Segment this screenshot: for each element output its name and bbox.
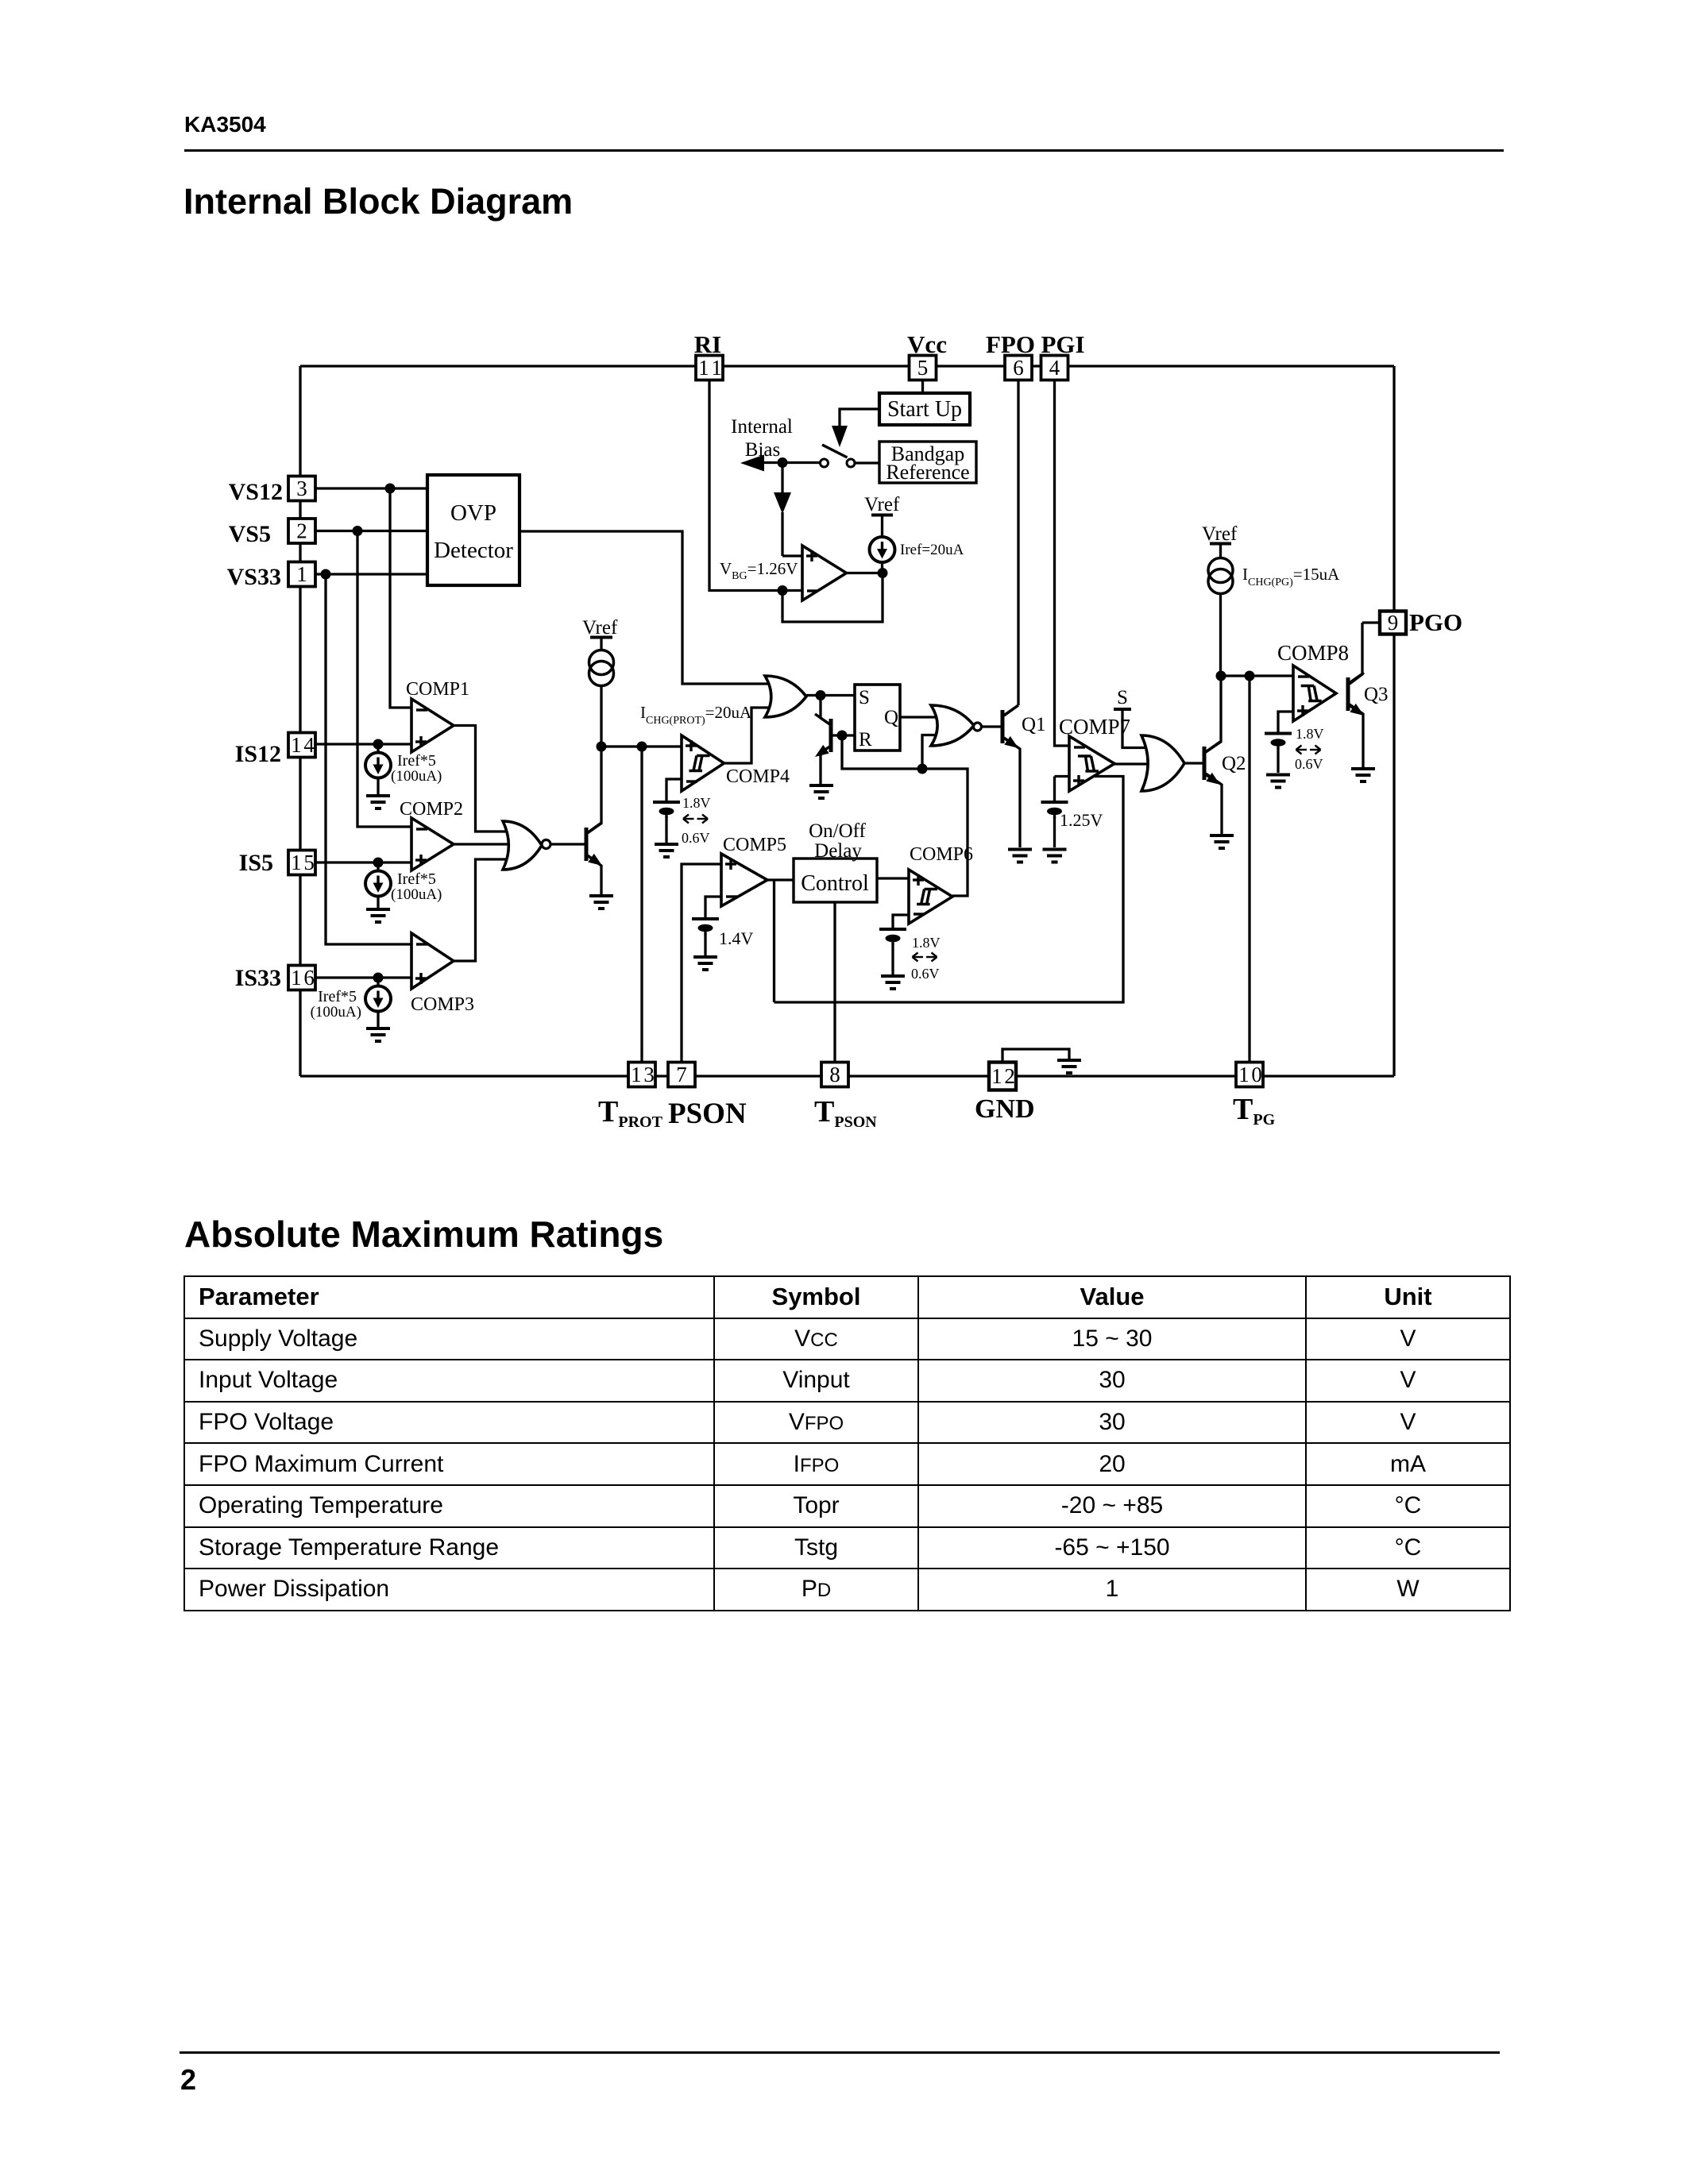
wire R node down and right to COMP6 output rail xyxy=(842,735,968,896)
pin 11 RI xyxy=(696,356,723,380)
op-amp bandgap buffer xyxy=(802,546,847,600)
current source Iref*5 IS33 xyxy=(377,978,379,986)
svg-text:(100uA): (100uA) xyxy=(391,886,442,903)
op-amp COMP7 xyxy=(1069,736,1114,791)
wire COMP7 output to OR-B input 2 xyxy=(1114,762,1149,765)
svg-text:Vcc: Vcc xyxy=(907,330,947,358)
table absolute maximum ratings xyxy=(183,1275,1511,1611)
svg-text:GND: GND xyxy=(975,1094,1035,1124)
svg-text:Iref*5: Iref*5 xyxy=(318,988,357,1005)
node VS33 junction xyxy=(321,569,331,580)
svg-text:VS12: VS12 xyxy=(229,479,283,505)
svg-text:R: R xyxy=(859,729,872,751)
svg-text:PGO: PGO xyxy=(1409,608,1462,636)
transistor latch reset xyxy=(815,714,831,757)
wire COMP7 plus input xyxy=(1055,775,1072,778)
wire latch R input xyxy=(832,734,855,736)
node Vref output junction xyxy=(878,568,888,578)
arrow switch actuator xyxy=(832,426,848,447)
svg-text:COMP8: COMP8 xyxy=(1277,641,1349,665)
battery COMP4 threshold 1.8V/0.6V xyxy=(653,802,680,818)
svg-text:VS5: VS5 xyxy=(229,521,271,547)
svg-text:0.6V: 0.6V xyxy=(1295,756,1323,772)
svg-text:COMP1: COMP1 xyxy=(406,679,469,700)
latch SR xyxy=(855,685,900,751)
gate NOR latch output xyxy=(931,705,974,746)
wire pin4 PGI down to COMP7 minus xyxy=(1055,380,1072,746)
svg-text:COMP2: COMP2 xyxy=(400,799,463,820)
wire COMP5 output to control block xyxy=(767,878,795,881)
wire VS12 pin3 to OVP detector xyxy=(315,487,429,489)
op-amp COMP1 xyxy=(411,699,454,752)
current source ICHG(PG)=15uA xyxy=(1208,558,1233,594)
wire NOR-B output to Q1 base xyxy=(982,725,1003,727)
node internal bias junction xyxy=(778,457,788,468)
wire Q1 collector xyxy=(1004,705,1018,716)
svg-text:Iref*5: Iref*5 xyxy=(397,752,436,770)
svg-text:1.25V: 1.25V xyxy=(1060,810,1103,830)
svg-text:ICHG(PROT)=20uA: ICHG(PROT)=20uA xyxy=(640,703,752,727)
wire pin11 RI down to bandgap opamp minus xyxy=(709,380,802,591)
battery COMP6 threshold 1.8V/0.6V xyxy=(879,929,906,945)
wire latch transistor emitter to ground xyxy=(821,746,831,784)
wire S terminal to OR-B input 1 xyxy=(1122,709,1147,748)
wire control block to COMP6 plus xyxy=(877,877,910,879)
svg-text:COMP6: COMP6 xyxy=(910,844,973,865)
svg-text:0.6V: 0.6V xyxy=(911,966,940,982)
node protection timing junction xyxy=(597,742,607,752)
op-amp COMP8 xyxy=(1293,666,1336,721)
wire Q2 collector to power-good node xyxy=(1206,676,1221,752)
wire Vref to protection charge source xyxy=(600,638,602,651)
svg-text:Detector: Detector xyxy=(434,538,513,563)
wire VS5 pin2 to OVP detector xyxy=(315,530,429,532)
ground COMP4 threshold battery xyxy=(655,844,678,857)
wire Iref source to Vref node xyxy=(881,562,883,573)
ground Q2 emitter xyxy=(1210,835,1234,848)
pin 5 Vcc xyxy=(910,356,937,380)
pin 4 PGI xyxy=(1041,356,1068,380)
wire protection transistor collector xyxy=(587,747,601,833)
svg-text:1.8V: 1.8V xyxy=(912,935,941,951)
block Bandgap Reference xyxy=(879,442,976,483)
svg-text:1 5: 1 5 xyxy=(291,851,314,874)
svg-text:0.6V: 0.6V xyxy=(682,830,710,846)
svg-text:COMP4: COMP4 xyxy=(726,766,790,787)
svg-text:RI: RI xyxy=(694,330,721,358)
svg-text:COMP3: COMP3 xyxy=(411,994,474,1015)
svg-text:Bias: Bias xyxy=(745,439,780,461)
wire TPG pin10 riser xyxy=(1248,676,1250,1063)
svg-text:OVP: OVP xyxy=(450,500,496,526)
heading Absolute Maximum Ratings xyxy=(184,1213,663,1256)
svg-text:1 4: 1 4 xyxy=(291,733,315,757)
svg-text:TPG: TPG xyxy=(1233,1093,1276,1129)
battery 1.4V xyxy=(692,919,719,935)
svg-text:1.4V: 1.4V xyxy=(719,928,754,948)
wire Q3 collector riser xyxy=(1350,623,1362,684)
wire NOR output to protection transistor base xyxy=(550,843,586,845)
wire switch to bandgap reference block xyxy=(855,461,879,464)
wire OVP detector output to OR gate input 1 xyxy=(520,531,769,684)
svg-text:8: 8 xyxy=(829,1063,840,1086)
svg-text:1.8V: 1.8V xyxy=(1296,726,1324,742)
header part number KA3504 xyxy=(184,112,266,137)
battery 1.25V xyxy=(1041,802,1068,818)
wire Vref terminal to Iref source xyxy=(881,515,883,538)
svg-text:3: 3 xyxy=(296,477,307,500)
wire R rail up to NOR-B input 2 xyxy=(922,735,937,770)
op-amp COMP3 xyxy=(411,933,454,989)
pin 12 GND xyxy=(989,1063,1016,1090)
wire IS12 pin14 to COMP1 plus xyxy=(315,743,413,745)
pin 13 TPROT xyxy=(628,1063,655,1087)
pin 1 VS33 xyxy=(288,562,315,587)
terminal Vref above power-good charge source xyxy=(1210,542,1231,546)
wire bandgap feedback loop xyxy=(782,573,883,623)
node VS12 junction xyxy=(385,484,396,494)
pin 14 IS12 xyxy=(288,733,315,758)
svg-text:PSON: PSON xyxy=(668,1098,747,1130)
svg-text:Reference: Reference xyxy=(886,461,969,484)
svg-text:(100uA): (100uA) xyxy=(311,1004,361,1021)
pin 15 IS5 xyxy=(288,851,315,875)
wire protection charge source to COMP4 plus node xyxy=(600,685,602,747)
svg-text:Control: Control xyxy=(801,871,869,896)
current source ICHG(PROT)=20uA xyxy=(589,650,614,686)
op-amp COMP6 xyxy=(909,870,952,924)
header rule xyxy=(184,149,1504,152)
svg-text:COMP7: COMP7 xyxy=(1059,715,1130,739)
node R rail to NOR-B branch xyxy=(917,764,928,774)
ground Q1 emitter xyxy=(1008,850,1032,862)
heading Internal Block Diagram xyxy=(183,181,573,222)
pin 8 TPSON xyxy=(821,1063,848,1087)
pin 7 PSON xyxy=(668,1063,695,1087)
wire protection transistor emitter to ground xyxy=(587,855,601,894)
battery COMP8 threshold 1.8V/0.6V xyxy=(1265,734,1292,750)
svg-text:VBG=1.26V: VBG=1.26V xyxy=(720,559,798,582)
gate NOR 3-input protection xyxy=(503,821,542,870)
wire Q1 emitter to ground xyxy=(1004,738,1020,847)
node TPG branch xyxy=(1245,671,1255,681)
pin 16 IS33 xyxy=(288,966,315,990)
ground 1.25V battery xyxy=(1043,850,1067,862)
wire COMP7 plus feedback from TPG rail xyxy=(774,777,1124,1003)
svg-text:1 2: 1 2 xyxy=(991,1064,1014,1088)
svg-text:Q3: Q3 xyxy=(1364,684,1389,705)
wire internal bias node to switch xyxy=(763,461,821,464)
wire Vref to power-good charge source xyxy=(1219,544,1222,559)
wire latch Q output to NOR-B input 1 xyxy=(900,716,937,718)
wire bandgap opamp output to Vref node xyxy=(847,572,883,574)
wire protection node to COMP4 plus xyxy=(601,745,683,747)
svg-text:7: 7 xyxy=(676,1063,687,1086)
arrow bias line down xyxy=(774,492,791,514)
wire VS33 pin1 to OVP detector xyxy=(315,573,429,575)
pin 10 TPG xyxy=(1236,1063,1263,1087)
svg-text:1 3: 1 3 xyxy=(631,1063,654,1086)
svg-text:Delay: Delay xyxy=(814,840,862,862)
pin 2 VS5 xyxy=(288,519,315,543)
wire COMP3 output to NOR gate input 3 xyxy=(454,859,511,961)
enclosure left border wire xyxy=(299,366,301,1076)
switch startup xyxy=(821,459,829,467)
transistor Q1 xyxy=(1002,705,1018,748)
transistor protection pull-down xyxy=(586,823,602,866)
op-amp COMP5 xyxy=(721,854,767,906)
gate OR set xyxy=(765,676,806,717)
wire Q2 emitter to ground xyxy=(1206,774,1222,834)
svg-text:1.8V: 1.8V xyxy=(682,795,711,811)
wire COMP2 output to NOR gate input 2 xyxy=(454,843,515,845)
op-amp COMP4 xyxy=(682,735,724,791)
ground COMP8 threshold battery xyxy=(1266,775,1290,788)
node IS5 current source tap xyxy=(373,858,384,868)
wire Q3 emitter to ground xyxy=(1350,704,1363,767)
svg-text:Iref*5: Iref*5 xyxy=(397,870,436,888)
transistor Q3 xyxy=(1348,673,1364,716)
svg-text:1 6: 1 6 xyxy=(291,966,314,990)
svg-text:IS12: IS12 xyxy=(235,741,281,767)
arrow internal bias xyxy=(740,455,764,472)
svg-text:1: 1 xyxy=(296,562,307,586)
svg-text:(100uA): (100uA) xyxy=(391,768,442,785)
svg-text:IS5: IS5 xyxy=(239,850,273,876)
svg-text:1 1: 1 1 xyxy=(698,356,720,380)
svg-text:6: 6 xyxy=(1013,356,1024,380)
ground IS12 current source xyxy=(366,796,390,808)
ground IS33 current source xyxy=(366,1028,390,1041)
block On/Off Delay Control xyxy=(794,859,877,902)
wire latch transistor collector to S node xyxy=(821,696,831,726)
ground Q3 emitter xyxy=(1351,769,1375,781)
wire TPROT pin13 riser xyxy=(640,747,643,1063)
ground latch transistor xyxy=(809,785,833,798)
wire COMP4 output to OR gate input 2 xyxy=(724,708,770,763)
ground COMP6 threshold battery xyxy=(881,976,905,989)
ground protection transistor xyxy=(589,896,613,909)
svg-text:VS33: VS33 xyxy=(227,564,281,590)
svg-text:FPO: FPO xyxy=(986,330,1035,358)
wire Start Up to switch actuator xyxy=(840,409,879,426)
terminal Vref for Iref current source xyxy=(871,514,893,517)
svg-text:Q1: Q1 xyxy=(1022,714,1046,735)
wire OR gate output to latch S input xyxy=(806,694,855,696)
wire COMP6 minus to 1.8V battery xyxy=(893,915,910,928)
transistor Q2 xyxy=(1204,742,1220,785)
svg-text:IS33: IS33 xyxy=(235,965,281,991)
svg-text:Q: Q xyxy=(884,707,898,728)
node S input junction xyxy=(816,690,826,700)
svg-text:5: 5 xyxy=(917,356,929,380)
current source Iref=20uA xyxy=(870,537,895,562)
node VS5 junction xyxy=(353,526,363,536)
current source Iref*5 IS12 xyxy=(377,744,379,752)
terminal S above OR gate xyxy=(1114,708,1131,711)
wire VS33 node down to COMP3 minus xyxy=(326,574,413,944)
svg-text:TPSON: TPSON xyxy=(814,1095,877,1131)
enclosure top border wire xyxy=(300,365,1394,367)
svg-text:Start Up: Start Up xyxy=(887,397,962,422)
svg-text:1 0: 1 0 xyxy=(1238,1063,1261,1086)
wire PSON pin7 riser to COMP5 plus xyxy=(682,864,723,1063)
wire COMP5 minus to 1.4V battery xyxy=(705,897,723,917)
wire IS33 pin16 to COMP3 plus xyxy=(315,976,413,978)
node TPROT branch xyxy=(637,742,647,752)
node IS33 current source tap xyxy=(373,973,384,983)
wire bias node down to bandgap opamp plus xyxy=(781,463,783,494)
svg-text:2: 2 xyxy=(296,519,307,543)
svg-text:S: S xyxy=(859,687,870,708)
op-amp COMP2 xyxy=(411,818,454,870)
pin 3 VS12 xyxy=(288,477,315,501)
block OVP Detector xyxy=(427,475,520,585)
wire IS5 pin15 to COMP2 plus xyxy=(315,861,413,863)
svg-text:On/Off: On/Off xyxy=(809,820,866,842)
svg-text:TPROT: TPROT xyxy=(598,1095,663,1131)
wire VS5 node down to COMP2 minus xyxy=(357,531,413,828)
svg-text:PGI: PGI xyxy=(1041,330,1084,358)
footer rule xyxy=(180,2051,1500,2054)
svg-text:Vref: Vref xyxy=(582,617,618,639)
enclosure right border wire xyxy=(1393,366,1395,1076)
wire COMP7 plus to 1.25V battery xyxy=(1053,777,1056,801)
node IS12 current source tap xyxy=(373,739,384,750)
svg-text:9: 9 xyxy=(1388,611,1399,635)
wire OR-B output to Q2 base xyxy=(1184,762,1204,764)
svg-text:ICHG(PG)=15uA: ICHG(PG)=15uA xyxy=(1242,565,1340,588)
terminal Vref above protection charge source xyxy=(590,636,612,639)
svg-text:Q2: Q2 xyxy=(1222,753,1246,774)
ground IS5 current source xyxy=(366,909,390,922)
ground GND pin xyxy=(1057,1060,1081,1073)
wire COMP1 output to NOR gate input 1 xyxy=(454,726,508,832)
svg-text:Vref: Vref xyxy=(864,494,900,515)
wire power-good source down to node xyxy=(1219,593,1222,676)
svg-text:S: S xyxy=(1117,687,1128,708)
wire VS12 node down to COMP1 minus xyxy=(390,488,413,708)
current source Iref*5 IS5 xyxy=(377,862,379,870)
pin 6 FPO xyxy=(1005,356,1032,380)
svg-text:Vref: Vref xyxy=(1202,523,1238,545)
ground 1.4V battery xyxy=(693,957,717,970)
wire pin6 FPO down to Q1 collector xyxy=(1017,380,1019,705)
wire pin5 Vcc to Start Up block xyxy=(921,380,924,395)
enclosure bottom border wire xyxy=(300,1075,1394,1077)
svg-text:4: 4 xyxy=(1049,356,1060,380)
pin 9 PGO xyxy=(1380,612,1406,635)
node power-good junction xyxy=(1216,671,1226,681)
svg-text:COMP5: COMP5 xyxy=(723,835,786,855)
gate OR power-good xyxy=(1141,735,1184,791)
footer page number xyxy=(180,2063,196,2097)
wire COMP8 plus input xyxy=(1278,712,1295,732)
wire COMP5 output branch down xyxy=(773,880,775,1002)
block Start Up xyxy=(879,393,970,425)
wire PGO pin9 stub xyxy=(1362,621,1380,623)
svg-text:Internal: Internal xyxy=(731,416,793,438)
svg-text:Iref=20uA: Iref=20uA xyxy=(900,542,964,558)
node R input junction xyxy=(837,731,848,741)
wire power-good node to COMP8 minus xyxy=(1221,674,1295,677)
node bandgap minus junction xyxy=(778,585,788,596)
wire GND pin12 bracket to ground xyxy=(1002,1049,1069,1063)
wire COMP4 minus to threshold battery xyxy=(666,779,683,801)
wire TPSON pin8 riser to control block xyxy=(833,902,836,1063)
